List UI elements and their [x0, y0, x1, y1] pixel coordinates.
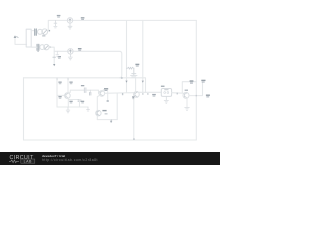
wire Q1 base: [57, 94, 65, 96]
label T2 tick: [37, 51, 38, 52]
node T2 out dot: [50, 46, 52, 48]
transformer T2 diagonal: [45, 46, 48, 50]
wire after C1: [87, 90, 99, 93]
transistor Q3: [96, 110, 101, 115]
node tick: [122, 93, 123, 95]
wire Q2 emitter down: [97, 95, 100, 120]
node Q4 emitter arrow: [132, 96, 135, 99]
label R3: [69, 101, 72, 102]
box X1: [161, 89, 171, 97]
ground Q5: [185, 107, 190, 110]
transformer T1 diagonal: [43, 30, 47, 34]
label AM2: [78, 48, 82, 49]
label Q3: [102, 110, 106, 111]
tick row2 stub: [53, 56, 56, 58]
label R8: [152, 94, 156, 95]
wire vertical tap 1 from top rail: [126, 20, 128, 92]
bottom bar: [0, 152, 220, 165]
node arrow row2 end: [53, 64, 55, 66]
label V2: [58, 56, 61, 57]
wire antenna input: [15, 38, 27, 44]
wire Q2 collector stub: [102, 90, 104, 91]
transformer T1 core: [35, 29, 37, 35]
wire Q3 emitter line: [97, 119, 117, 121]
source VS2 circle: [68, 49, 73, 54]
wire amp bottom rail: [57, 106, 88, 108]
label R2: [58, 96, 61, 97]
label T1: [42, 35, 45, 36]
svg-text:LAB: LAB: [24, 159, 32, 163]
wire T2 output: [49, 47, 55, 64]
ground R7: [131, 75, 138, 77]
wire Q5 collector loop: [182, 82, 196, 93]
label AM1: [81, 17, 85, 18]
wire T1 output to top rail: [48, 20, 197, 30]
wire X1 to Q5: [172, 92, 183, 95]
wire box to T1: [31, 30, 34, 32]
wire left frame down: [23, 78, 25, 140]
label R1: [58, 82, 61, 83]
label VCC: [201, 80, 205, 81]
node T1 out dot: [49, 30, 51, 32]
label Q5: [185, 90, 188, 91]
node antenna arrow: [14, 35, 17, 38]
node arrow at 68: [67, 79, 69, 81]
wire hang x117: [116, 93, 118, 120]
wire vertical tap 2 from top rail: [142, 20, 144, 92]
source VS1 circle: [67, 18, 72, 23]
transistor Q5: [183, 92, 189, 98]
transistor Q4: [134, 92, 140, 98]
wire Q4 out: [138, 91, 161, 93]
node arrow at 57: [56, 79, 58, 81]
wire bottom rail: [24, 139, 197, 141]
node tick: [177, 93, 178, 95]
component R9 on loop: [190, 80, 194, 82]
wire Q4 collector: [135, 78, 137, 92]
ground mid: [89, 90, 91, 92]
wire row2 rail (line A): [54, 51, 122, 78]
node dot at rail crossing: [196, 95, 197, 96]
ground stub V1: [54, 20, 57, 28]
label V1: [57, 15, 61, 16]
label R4: [69, 82, 72, 83]
ground arrow under: [110, 120, 112, 123]
wire Q5 out: [189, 83, 203, 96]
label C2: [81, 101, 84, 102]
wire line B supply rail: [24, 78, 146, 93]
capacitor C2: [78, 100, 81, 101]
wire amp left vertical R1/R2: [56, 78, 58, 107]
transformer T2 core: [37, 44, 39, 50]
wire Q2 out to Q4 base: [105, 92, 134, 95]
ground rail end: [87, 107, 90, 111]
wire Q4 emitter to bottom rail: [134, 97, 135, 140]
node mark: [107, 100, 109, 102]
resistor R7 horizontal: [127, 67, 135, 69]
node arrow tap1: [125, 81, 127, 83]
node arrow tap2: [142, 81, 144, 83]
wire emitter node to C2: [68, 99, 79, 101]
ground stub row2: [56, 51, 59, 56]
transformer T1 body: [38, 29, 43, 34]
label Q2: [104, 88, 108, 89]
transistor Q2: [99, 91, 105, 97]
wire Q1 emitter: [67, 98, 69, 107]
label R7: [135, 64, 139, 65]
wire Q5 emitter: [186, 98, 188, 107]
label OUT: [206, 95, 210, 96]
label C1: [81, 85, 84, 86]
node junction lineA-lineB: [121, 77, 123, 79]
ground under X1: [164, 96, 168, 103]
wire amp mid vertical RC: [67, 78, 69, 93]
node junction bottom: [133, 138, 135, 140]
ground amp bottom: [66, 107, 70, 113]
wire top rail right corner down: [195, 20, 197, 140]
ground under VS2: [68, 54, 72, 60]
wire box to T2: [31, 46, 37, 48]
wire Q1 collector: [68, 90, 84, 93]
transformer T2 body: [40, 45, 45, 50]
label X1: [161, 86, 165, 87]
capacitor C1: [84, 88, 86, 93]
wire R7 down + tick: [132, 68, 136, 75]
transistor Q1: [65, 93, 71, 99]
primary winding box L1: [26, 29, 31, 47]
ground under VS1: [68, 23, 72, 29]
wire Q2 right branch: [107, 92, 109, 101]
